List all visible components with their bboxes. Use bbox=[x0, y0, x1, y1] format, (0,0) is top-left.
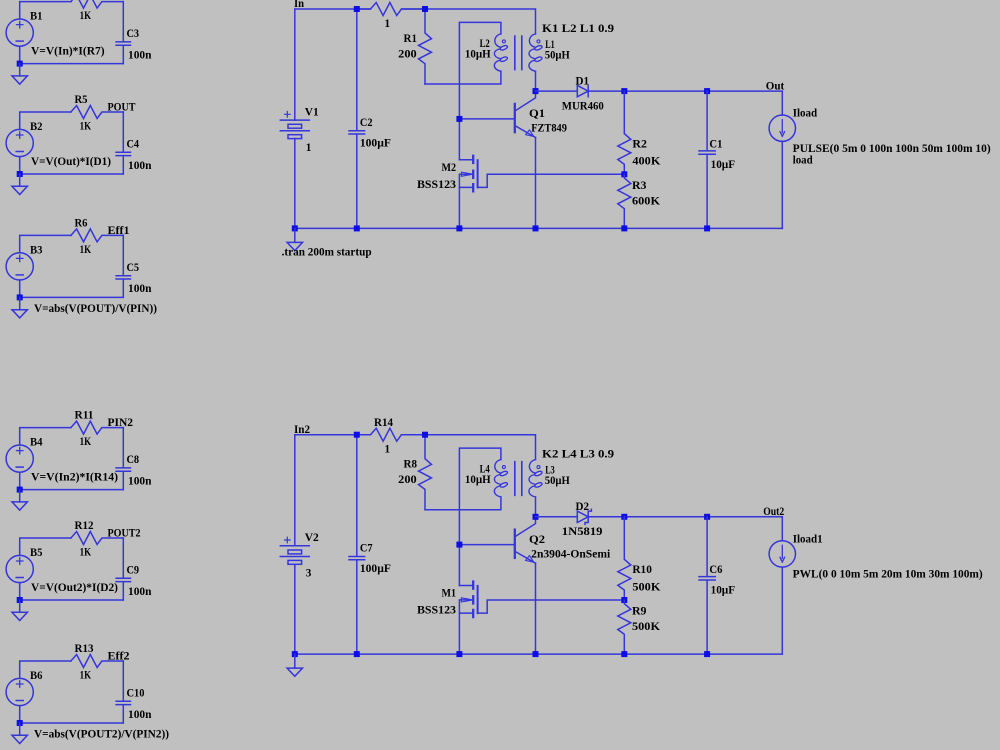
resistor R13 1K bbox=[71, 655, 123, 668]
junction B2 ground node bbox=[17, 171, 23, 177]
svg-text:R11: R11 bbox=[75, 410, 94, 422]
resistor R8 200 bbox=[419, 435, 432, 510]
svg-text:R5: R5 bbox=[75, 94, 88, 106]
wire B3 loop top/left/bottom bbox=[20, 235, 124, 297]
wire V2 column bbox=[294, 435, 296, 654]
capacitor C9 100n bbox=[116, 538, 130, 600]
phase dot L4 bbox=[502, 466, 505, 469]
capacitor C1 10µF bbox=[699, 91, 715, 228]
svg-text:D2: D2 bbox=[576, 501, 590, 513]
svg-text:100n: 100n bbox=[128, 709, 152, 721]
resistor 1 Ohm bbox=[357, 428, 425, 441]
resistor R6 1K bbox=[71, 229, 123, 242]
svg-text:V=V(Out)*I(D1): V=V(Out)*I(D1) bbox=[31, 156, 111, 168]
junction top rail res bbox=[422, 6, 428, 12]
junction B6 ground node bbox=[17, 720, 23, 726]
junction base node bbox=[456, 542, 462, 548]
wire main ground stub bbox=[294, 654, 296, 668]
junction divider node bbox=[621, 171, 627, 177]
current source Iload bbox=[769, 115, 795, 141]
svg-text:Q1: Q1 bbox=[529, 108, 545, 120]
capacitor C7 100µF bbox=[349, 435, 365, 654]
svg-text:200: 200 bbox=[398, 474, 417, 486]
ground B5 bbox=[12, 612, 27, 620]
svg-text:R9: R9 bbox=[632, 606, 647, 618]
svg-text:R14: R14 bbox=[374, 417, 393, 429]
svg-text:1K: 1K bbox=[80, 669, 92, 681]
svg-text:R2: R2 bbox=[632, 138, 647, 150]
wire net Out bbox=[588, 91, 782, 115]
wire M1 gate to divider bbox=[478, 600, 625, 613]
svg-text:V1: V1 bbox=[305, 107, 319, 119]
wire emitter to ground rail bbox=[535, 138, 537, 229]
ground B2 bbox=[12, 186, 27, 194]
transistor Q2 bbox=[515, 517, 536, 563]
svg-text:Out2: Out2 bbox=[763, 506, 784, 518]
svg-text:POUT: POUT bbox=[108, 102, 136, 114]
junction rail out cap bbox=[704, 225, 710, 231]
wire Iload1 bottom bbox=[781, 567, 783, 654]
svg-text:C9: C9 bbox=[127, 564, 140, 576]
ground B4 bbox=[12, 502, 27, 510]
current source Iload1 bbox=[769, 541, 795, 567]
junction base node bbox=[456, 116, 462, 122]
svg-text:500K: 500K bbox=[632, 581, 660, 593]
junction diode-R node bbox=[621, 88, 627, 94]
wire B5 loop top/left/bottom bbox=[20, 538, 124, 600]
svg-text:3: 3 bbox=[306, 568, 312, 580]
svg-text:C3: C3 bbox=[127, 28, 140, 40]
svg-text:In: In bbox=[294, 0, 305, 10]
junction collector node bbox=[533, 88, 539, 94]
svg-text:600K: 600K bbox=[632, 195, 660, 207]
resistor R9 bbox=[618, 600, 631, 654]
svg-text:Iload1: Iload1 bbox=[793, 533, 823, 545]
wire net In2 top rail bbox=[295, 435, 536, 460]
voltage source V2 bbox=[280, 537, 309, 564]
svg-text:1: 1 bbox=[306, 142, 312, 154]
svg-text:100µF: 100µF bbox=[360, 138, 391, 150]
wire L1 bottom to collector node bbox=[535, 71, 537, 91]
svg-text:R10: R10 bbox=[632, 564, 652, 576]
junction rail mos source bbox=[456, 225, 462, 231]
svg-text:V2: V2 bbox=[305, 532, 319, 544]
svg-text:C1: C1 bbox=[709, 138, 722, 150]
svg-text:100µF: 100µF bbox=[360, 563, 391, 575]
svg-text:1: 1 bbox=[385, 18, 391, 30]
svg-text:10µF: 10µF bbox=[711, 159, 736, 171]
wire B5 ground stub bbox=[19, 600, 21, 612]
svg-text:1K: 1K bbox=[80, 244, 92, 256]
capacitor C8 100n bbox=[116, 428, 130, 490]
resistor R7 1K bbox=[71, 0, 123, 8]
phase dot L2 bbox=[502, 40, 505, 43]
svg-text:In2: In2 bbox=[294, 424, 310, 436]
capacitor C6 10µF bbox=[699, 517, 715, 654]
svg-text:.tran 200m startup: .tran 200m startup bbox=[282, 247, 372, 259]
svg-text:B1: B1 bbox=[30, 11, 43, 23]
phase dot L3 bbox=[537, 466, 540, 469]
inductor L4 10µH bbox=[494, 460, 508, 497]
junction rail divider bbox=[621, 651, 627, 657]
wire V1 column bbox=[294, 9, 296, 228]
svg-text:1K: 1K bbox=[80, 120, 92, 132]
junction rail gnd tap bbox=[292, 225, 298, 231]
svg-text:Q2: Q2 bbox=[529, 534, 545, 546]
svg-text:100n: 100n bbox=[128, 49, 152, 61]
capacitor C5 100n bbox=[116, 235, 130, 297]
wire B3 ground stub bbox=[19, 297, 21, 309]
wire M2 gate to divider bbox=[478, 174, 625, 187]
transformer core bbox=[515, 36, 522, 70]
svg-text:1K: 1K bbox=[80, 436, 92, 448]
svg-text:C5: C5 bbox=[127, 262, 140, 274]
resistor R12 1K bbox=[71, 532, 123, 545]
svg-text:1K: 1K bbox=[80, 10, 92, 22]
junction B5 ground node bbox=[17, 597, 23, 603]
svg-text:C4: C4 bbox=[127, 138, 140, 150]
wire net Out2 bbox=[588, 517, 782, 541]
svg-text:load: load bbox=[793, 155, 814, 167]
svg-text:PWL(0 0 10m 5m 20m 10m 30m 100: PWL(0 0 10m 5m 20m 10m 30m 100m) bbox=[793, 569, 983, 581]
ground B3 bbox=[12, 310, 27, 318]
svg-text:10µH: 10µH bbox=[465, 49, 491, 61]
wire main ground stub bbox=[294, 228, 296, 242]
junction B3 ground node bbox=[17, 294, 23, 300]
junction B4 ground node bbox=[17, 487, 23, 493]
svg-text:Out: Out bbox=[766, 80, 785, 92]
svg-text:500K: 500K bbox=[632, 621, 660, 633]
wire B4 ground stub bbox=[19, 490, 21, 502]
inductor L2 10µH bbox=[494, 34, 508, 71]
junction rail gnd tap bbox=[292, 651, 298, 657]
phase dot L1 bbox=[537, 40, 540, 43]
svg-text:B4: B4 bbox=[30, 437, 43, 449]
svg-text:R1: R1 bbox=[404, 33, 418, 45]
resistor R5 1K bbox=[71, 106, 123, 119]
svg-text:BSS123: BSS123 bbox=[417, 605, 456, 617]
transistor Q1 bbox=[515, 91, 536, 137]
junction top rail res bbox=[422, 432, 428, 438]
resistor R10 bbox=[618, 517, 631, 600]
wire M1 source to rail bbox=[458, 613, 460, 654]
svg-text:R12: R12 bbox=[75, 520, 94, 532]
diode D2 bbox=[577, 509, 591, 524]
behavioral source B2 bbox=[6, 129, 33, 156]
junction top rail cap bbox=[354, 6, 360, 12]
svg-text:50µH: 50µH bbox=[545, 475, 570, 487]
junction rail out cap bbox=[704, 651, 710, 657]
wire collector node to diode bbox=[536, 90, 578, 92]
svg-text:Eff1: Eff1 bbox=[108, 225, 130, 237]
svg-text:FZT849: FZT849 bbox=[531, 123, 567, 135]
behavioral source B5 bbox=[6, 555, 33, 582]
behavioral source B3 bbox=[6, 253, 33, 280]
wire B1 loop top/left/bottom bbox=[20, 2, 124, 64]
wire ground rail bbox=[295, 227, 783, 229]
svg-text:K2 L4 L3 0.9: K2 L4 L3 0.9 bbox=[542, 449, 614, 461]
svg-text:100n: 100n bbox=[128, 283, 152, 295]
wire L3 bottom to collector node bbox=[535, 497, 537, 517]
wire emitter to ground rail bbox=[535, 563, 537, 654]
mosfet M2 BSS123 bbox=[459, 156, 477, 192]
svg-text:B2: B2 bbox=[30, 121, 43, 133]
junction diode-R node bbox=[621, 514, 627, 520]
svg-text:1K: 1K bbox=[80, 546, 92, 558]
junction rail emitter bbox=[533, 651, 539, 657]
svg-text:10µF: 10µF bbox=[711, 585, 736, 597]
inductor L3 50µH bbox=[529, 460, 543, 497]
svg-text:D1: D1 bbox=[576, 76, 590, 88]
wire L2 top to base column bbox=[459, 22, 501, 159]
svg-text:50µH: 50µH bbox=[545, 49, 570, 61]
junction rail mos source bbox=[456, 651, 462, 657]
svg-text:1N5819: 1N5819 bbox=[562, 526, 603, 538]
svg-text:K1 L2 L1 0.9: K1 L2 L1 0.9 bbox=[542, 23, 614, 35]
resistor R3 bbox=[618, 174, 631, 228]
transformer core bbox=[515, 462, 522, 496]
svg-text:V=abs(V(POUT2)/V(PIN2)): V=abs(V(POUT2)/V(PIN2)) bbox=[34, 728, 169, 740]
svg-text:B3: B3 bbox=[30, 244, 43, 256]
svg-text:V=abs(V(POUT)/V(PIN)): V=abs(V(POUT)/V(PIN)) bbox=[34, 303, 157, 315]
wire net In top rail bbox=[295, 9, 536, 34]
behavioral source B4 bbox=[6, 445, 33, 472]
behavioral source B6 bbox=[6, 678, 33, 705]
svg-text:V=V(In2)*I(R14): V=V(In2)*I(R14) bbox=[31, 472, 118, 484]
svg-text:100n: 100n bbox=[128, 475, 152, 487]
svg-text:R6: R6 bbox=[75, 217, 88, 229]
svg-text:V=V(Out2)*I(D2): V=V(Out2)*I(D2) bbox=[31, 582, 118, 594]
svg-text:MUR460: MUR460 bbox=[562, 101, 604, 113]
svg-text:M2: M2 bbox=[442, 162, 457, 174]
wire B2 loop top/left/bottom bbox=[20, 112, 124, 174]
svg-text:C7: C7 bbox=[360, 543, 373, 555]
resistor R2 bbox=[618, 91, 631, 174]
wire L4 top to base column bbox=[459, 448, 501, 585]
junction rail emitter bbox=[533, 225, 539, 231]
svg-text:100n: 100n bbox=[128, 586, 152, 598]
svg-text:Eff2: Eff2 bbox=[108, 651, 130, 663]
junction B1 ground node bbox=[17, 61, 23, 67]
wire R8 bottom to L4 bbox=[425, 497, 501, 510]
wire R1 bottom to L2 bbox=[425, 71, 501, 84]
svg-text:400K: 400K bbox=[632, 156, 660, 168]
junction cap node bbox=[704, 88, 710, 94]
junction rail cap bbox=[354, 225, 360, 231]
resistor R1 200 bbox=[419, 9, 432, 84]
svg-text:R8: R8 bbox=[404, 459, 418, 471]
svg-text:100n: 100n bbox=[128, 160, 152, 172]
wire ground rail bbox=[295, 653, 783, 655]
ground main bbox=[287, 668, 302, 676]
wire B6 ground stub bbox=[19, 723, 21, 735]
junction top rail cap bbox=[354, 432, 360, 438]
wire B6 loop top/left/bottom bbox=[20, 661, 124, 723]
ground main bbox=[287, 242, 302, 250]
wire Iload bottom bbox=[781, 141, 783, 228]
svg-text:R13: R13 bbox=[75, 643, 94, 655]
svg-text:PIN2: PIN2 bbox=[108, 417, 134, 429]
capacitor C2 100µF bbox=[349, 9, 365, 228]
svg-text:PULSE(0 5m 0 100n 100n 50m 100: PULSE(0 5m 0 100n 100n 50m 100m 10) bbox=[793, 143, 991, 155]
junction rail cap bbox=[354, 651, 360, 657]
svg-text:Iload: Iload bbox=[793, 108, 818, 120]
svg-text:C10: C10 bbox=[127, 687, 145, 699]
capacitor C3 100n bbox=[116, 2, 130, 64]
wire B4 loop top/left/bottom bbox=[20, 428, 124, 490]
ground B1 bbox=[12, 76, 27, 84]
svg-text:POUT2: POUT2 bbox=[108, 528, 141, 540]
wire collector node to diode bbox=[536, 516, 578, 518]
svg-text:M1: M1 bbox=[442, 588, 457, 600]
svg-text:C8: C8 bbox=[127, 454, 140, 466]
junction cap node bbox=[704, 514, 710, 520]
wire B1 ground stub bbox=[19, 64, 21, 76]
behavioral source B1 bbox=[6, 19, 33, 46]
wire B2 ground stub bbox=[19, 174, 21, 186]
capacitor C4 100n bbox=[116, 112, 130, 174]
capacitor C10 100n bbox=[116, 661, 130, 723]
wire M2 source to rail bbox=[458, 187, 460, 228]
diode D1 bbox=[577, 85, 588, 96]
resistor 1 Ohm bbox=[357, 3, 425, 16]
svg-text:V=V(In)*I(R7): V=V(In)*I(R7) bbox=[31, 46, 105, 58]
svg-text:200: 200 bbox=[398, 48, 417, 60]
mosfet M1 BSS123 bbox=[459, 582, 477, 618]
svg-text:2n3904-OnSemi: 2n3904-OnSemi bbox=[531, 548, 610, 560]
junction divider node bbox=[621, 597, 627, 603]
voltage source V1 bbox=[280, 112, 309, 139]
svg-text:R3: R3 bbox=[632, 180, 647, 192]
svg-text:C2: C2 bbox=[360, 117, 373, 129]
svg-text:B5: B5 bbox=[30, 547, 43, 559]
svg-text:B6: B6 bbox=[30, 670, 43, 682]
resistor R11 1K bbox=[71, 421, 123, 434]
wire base bbox=[459, 544, 514, 546]
svg-text:10µH: 10µH bbox=[465, 474, 491, 486]
junction rail divider bbox=[621, 225, 627, 231]
junction collector node bbox=[533, 514, 539, 520]
svg-text:BSS123: BSS123 bbox=[417, 179, 456, 191]
svg-text:C6: C6 bbox=[709, 564, 722, 576]
inductor L1 50µH bbox=[529, 34, 543, 71]
svg-text:1: 1 bbox=[385, 444, 391, 456]
ground B6 bbox=[12, 735, 27, 743]
wire base bbox=[459, 118, 514, 120]
